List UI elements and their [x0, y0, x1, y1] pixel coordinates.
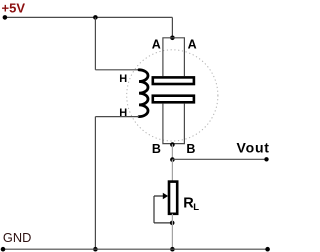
wire heater bottom stub — [95, 116, 139, 118]
terminal dot +5V — [3, 15, 8, 20]
junction dot heater branch — [93, 15, 98, 20]
label GND — [3, 230, 31, 245]
svg-text:H: H — [119, 107, 127, 119]
wire A terminal bar and leads — [163, 38, 185, 76]
terminal dot GND left — [1, 247, 6, 252]
junction dot A terminal bar — [170, 36, 175, 41]
wire output node to RL top — [171, 160, 173, 181]
wire wiper return horizontal — [154, 222, 172, 224]
wire heater supply vertical — [94, 17, 96, 69]
label Vout — [237, 139, 270, 155]
junction dot RL on GND rail — [170, 247, 175, 252]
svg-text:B: B — [186, 142, 195, 156]
wire sensor feed from +5V rail — [171, 17, 173, 37]
wire B terminal leads and bar — [163, 104, 185, 144]
sensor body outline (dotted envelope) — [127, 50, 218, 141]
electrode plate top — [153, 77, 194, 84]
label A left — [152, 38, 161, 52]
label A right — [188, 38, 197, 52]
svg-text:A: A — [152, 38, 161, 52]
wiper arrow of RL — [154, 193, 168, 199]
wire wiper return vertical — [153, 196, 155, 223]
label B left — [152, 142, 161, 156]
wire B to output node — [171, 144, 173, 159]
label B right — [186, 142, 195, 156]
svg-text:H: H — [119, 73, 127, 85]
svg-text:+5V: +5V — [2, 1, 26, 16]
junction dot output node — [170, 157, 175, 162]
label RL — [183, 195, 199, 213]
label +5V — [2, 1, 26, 16]
wire Vout horizontal — [172, 158, 266, 160]
wire RL bottom to GND rail — [171, 214, 173, 249]
terminal dot Vout — [264, 157, 268, 161]
svg-text:Vout: Vout — [237, 139, 270, 155]
wire +5V rail — [5, 16, 173, 18]
wire heater return vertical to GND rail — [94, 117, 96, 250]
svg-text:B: B — [152, 142, 161, 156]
electrode plate bottom — [153, 96, 194, 103]
svg-text:GND: GND — [3, 230, 31, 245]
svg-text:L: L — [193, 202, 199, 213]
heater coil H — [139, 70, 148, 117]
label H bottom — [119, 107, 127, 119]
svg-text:A: A — [188, 38, 197, 52]
resistor RL body — [169, 182, 177, 214]
junction dot wiper tie — [170, 221, 175, 226]
terminal dot GND right — [265, 247, 270, 252]
junction dot heater return on GND rail — [93, 247, 98, 252]
wire GND rail — [3, 248, 268, 250]
label H top — [119, 73, 127, 85]
wire heater top stub — [95, 69, 139, 71]
junction dot B terminal bar — [170, 142, 175, 147]
